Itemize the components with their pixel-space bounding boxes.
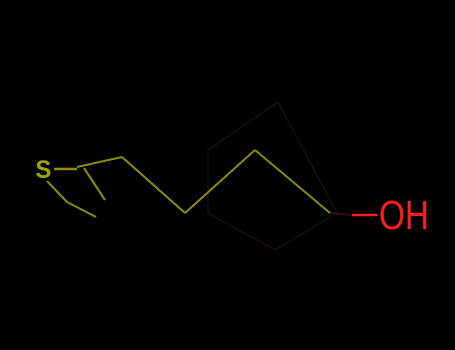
bond S-C5 (47, 181, 67, 202)
svg-text:OH: OH (379, 192, 429, 238)
ring(dark) edge LL-B (208, 213, 275, 250)
dark stub to O (330, 213, 352, 215)
bond double inner (84, 168, 105, 200)
bond C5-C4 (67, 202, 96, 217)
bond chain fall2 (255, 150, 330, 213)
ring(dark) edge LR-P1 (278, 102, 337, 213)
bond chain rise1 (185, 150, 255, 213)
svg-text:S: S (36, 156, 52, 184)
bond C2-C3 rise (77, 157, 122, 167)
ring(dark) edge P1-UL (208, 102, 278, 150)
bond chain fall1 (122, 157, 185, 213)
ring(dark) edge UL-LL (207, 150, 209, 213)
bond C-OH (352, 214, 378, 216)
bond S-C2 (54, 168, 77, 170)
ring(dark) edge B-LR (275, 213, 337, 250)
